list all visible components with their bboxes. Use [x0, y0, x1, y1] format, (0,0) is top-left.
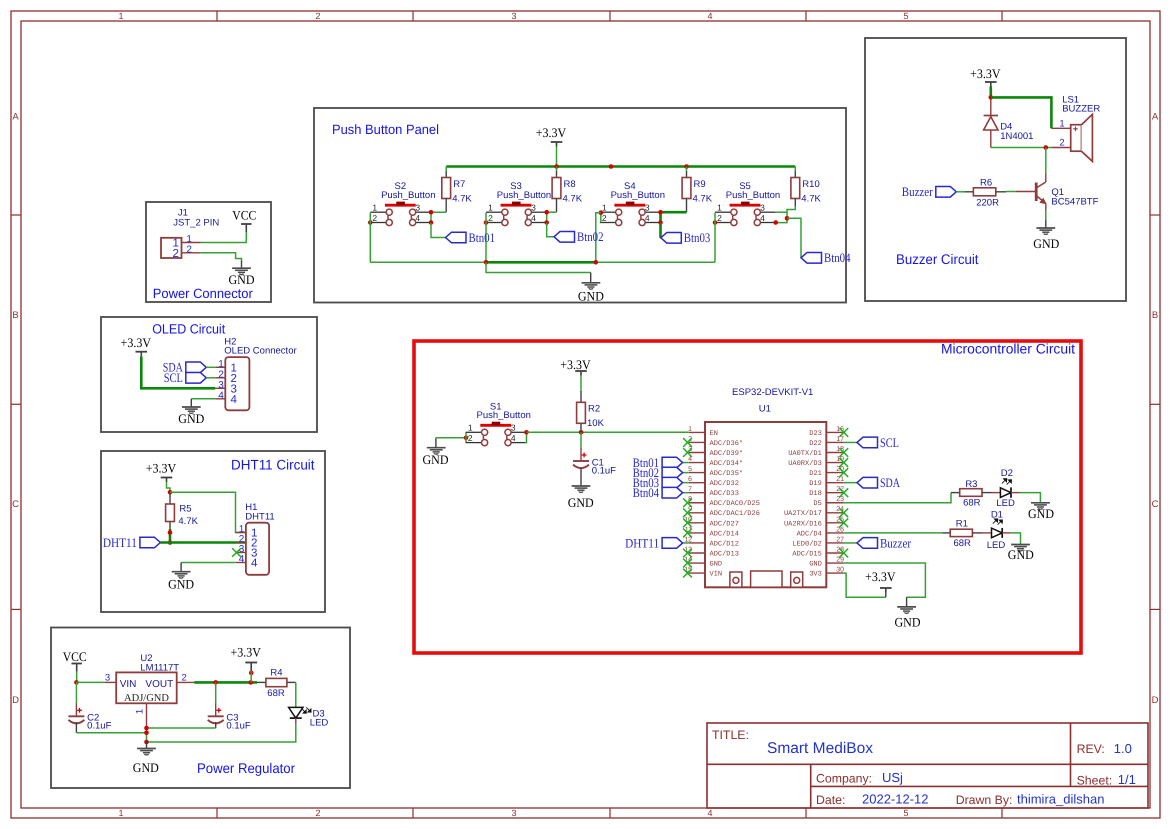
svg-text:Push_Button: Push_Button [476, 410, 530, 421]
svg-text:4.7K: 4.7K [563, 193, 583, 204]
svg-text:D5: D5 [813, 500, 821, 508]
H1 pin 3 [236, 552, 246, 554]
net port DHT11 mcu [625, 535, 683, 550]
no-connect U1 pin 24 [839, 508, 848, 517]
wire S3 pin2 drop [485, 213, 487, 263]
svg-text:DHT11: DHT11 [103, 535, 137, 550]
svg-text:2022-12-12: 2022-12-12 [862, 792, 929, 807]
no-connect U1 pin 3 [683, 448, 692, 457]
wire stub [686, 199, 688, 213]
junction VCC [74, 680, 79, 685]
wire SDA [206, 366, 215, 368]
junction S5 net [785, 216, 790, 221]
ground [582, 283, 601, 289]
svg-text:LED: LED [996, 498, 1015, 509]
svg-text:1: 1 [468, 423, 473, 433]
net port Btn02 [633, 465, 683, 480]
svg-text:30: 30 [836, 567, 844, 574]
junction S4 pin3 [658, 210, 663, 215]
svg-text:ADC/D13: ADC/D13 [710, 549, 739, 558]
svg-text:3: 3 [105, 673, 110, 684]
wire VCC to U2 VIN [76, 681, 104, 683]
junction S2 pin4 [429, 220, 434, 225]
U1 pin 28 [826, 552, 844, 554]
svg-text:ADC/D12: ADC/D12 [710, 539, 739, 548]
svg-text:BUZZER: BUZZER [1062, 104, 1100, 115]
power +3.3V panel [536, 125, 567, 147]
LED D3 [289, 707, 329, 728]
U1 pin 5 [689, 472, 705, 474]
wire VCC to J1 pin1 [201, 232, 247, 243]
svg-text:3: 3 [511, 423, 516, 433]
wire stub [580, 391, 582, 402]
svg-text:VCC: VCC [63, 649, 87, 664]
svg-text:4: 4 [231, 394, 238, 406]
junction S1 pin3 [524, 430, 529, 435]
svg-text:ADC/D32: ADC/D32 [710, 479, 739, 488]
wire +3.3V stem [250, 671, 252, 682]
junction DHT11 net [168, 540, 173, 545]
no-connect U1 pin 22 [839, 488, 848, 497]
svg-text:TITLE:: TITLE: [712, 728, 749, 742]
U1 pin 15 [689, 572, 705, 574]
svg-text:A: A [1152, 112, 1159, 123]
svg-text:2: 2 [468, 433, 473, 443]
svg-text:UA2RX/D16: UA2RX/D16 [784, 519, 822, 528]
ground D2 [1031, 503, 1050, 509]
svg-text:4: 4 [511, 433, 516, 443]
wire stub [580, 423, 582, 432]
wire R10 to S5 [776, 206, 796, 223]
svg-text:1: 1 [688, 426, 692, 433]
svg-text:+3.3V: +3.3V [865, 569, 896, 584]
block box DHT11 Circuit [101, 451, 325, 612]
block box Power Regulator [51, 628, 350, 789]
push button S3 [486, 181, 551, 225]
connector H2 [225, 357, 249, 410]
svg-text:ADC/D39*: ADC/D39* [710, 449, 744, 458]
title block [707, 723, 1148, 808]
svg-text:Buzzer: Buzzer [880, 535, 912, 550]
junction collector [1044, 145, 1049, 150]
capacitor C1 stub [580, 448, 582, 461]
wire Buzzer net [844, 542, 857, 544]
svg-text:2: 2 [488, 213, 493, 223]
net port Buzzer mcu [857, 535, 912, 550]
U1 pin 18 [826, 452, 844, 454]
wire H2 pin4 to ground [191, 398, 215, 400]
no-connect U1 pin 13 [683, 549, 692, 558]
wire stub [215, 722, 217, 728]
wire SDA [844, 482, 857, 484]
capacitor C2 [68, 708, 111, 732]
wire bus to R7 [445, 167, 447, 172]
svg-text:Btn04: Btn04 [824, 250, 851, 265]
wire +3.3V [989, 87, 992, 98]
no-connect H1 pin3 [232, 548, 241, 557]
no-connect U1 pin 2 [683, 438, 692, 447]
transistor Q1 labels [1051, 187, 1098, 208]
LS1 pin 2 [1052, 147, 1071, 149]
wire U1 GND [844, 563, 926, 597]
no-connect U1 pin 15 [683, 569, 692, 578]
junction GND bus [484, 260, 489, 265]
push button S1 [466, 401, 531, 445]
svg-text:thimira_dilshan: thimira_dilshan [1017, 792, 1104, 807]
ground D1 [1011, 545, 1030, 551]
svg-text:SCL: SCL [880, 435, 899, 450]
junction R5 [168, 530, 173, 535]
J1 pin numbers [172, 234, 192, 260]
capacitor C3 [208, 708, 251, 732]
resistor R5 [166, 504, 199, 528]
svg-text:VIN: VIN [120, 679, 137, 690]
svg-text:Btn03: Btn03 [684, 230, 711, 245]
wire stub [241, 261, 243, 268]
junction S4 pin4 [658, 220, 663, 225]
wire stub [169, 522, 171, 530]
svg-text:4: 4 [645, 213, 650, 223]
svg-text:4: 4 [531, 213, 536, 223]
svg-text:UA2TX/D17: UA2TX/D17 [784, 509, 822, 518]
svg-text:3: 3 [415, 202, 420, 212]
IC U1 labels [732, 387, 813, 415]
junction bus/+3.3V [554, 164, 559, 169]
LED D2 [996, 468, 1020, 509]
svg-text:4: 4 [760, 213, 765, 223]
connector J1 [161, 238, 182, 258]
U1 pin 21 [826, 482, 844, 484]
capacitor C2 stub [75, 704, 77, 717]
U1 pin 1 [689, 431, 705, 433]
wire C3 to ground [147, 727, 216, 729]
svg-text:ADC/D36*: ADC/D36* [710, 439, 744, 448]
svg-text:2: 2 [186, 244, 192, 255]
resistor R9 [682, 178, 713, 205]
wire stub [180, 563, 182, 572]
regulator U2 LM1117T [116, 672, 177, 703]
junction S3 pin4 [544, 220, 549, 225]
wire collector [1045, 148, 1047, 174]
connector H2 labels [224, 337, 296, 357]
U1 pin 26 [826, 532, 844, 534]
H2 pin 4 [215, 398, 225, 400]
wire 3V3 [844, 573, 886, 597]
wire stub [996, 191, 1006, 193]
wire GND jog [486, 262, 591, 272]
svg-text:2: 2 [717, 213, 722, 223]
wire S1 pin3-pin4 [525, 432, 527, 442]
wire stub [169, 494, 171, 504]
LED D1 [987, 510, 1011, 552]
svg-text:ESP32-DEVKIT-V1: ESP32-DEVKIT-V1 [732, 387, 813, 398]
svg-text:21: 21 [836, 476, 844, 483]
wire R9 to S4 pin3 [661, 211, 687, 214]
H1 pin number 4 [239, 554, 258, 570]
capacitor C2 wire [75, 682, 77, 703]
junction S3 pin2 [484, 220, 489, 225]
net port SCL [164, 370, 207, 385]
regulator U2 labels [140, 653, 179, 674]
svg-text:3: 3 [760, 202, 765, 212]
no-connect U1 pin 28 [839, 549, 848, 558]
U1 usb notch [751, 571, 782, 587]
svg-text:Buzzer Circuit: Buzzer Circuit [896, 251, 979, 267]
svg-text:LED0/D2: LED0/D2 [792, 539, 821, 548]
wire S4 pin1-pin2 [600, 213, 602, 223]
U1 pin 14 [689, 562, 705, 564]
svg-text:Push_Button: Push_Button [381, 190, 435, 201]
wire stub [257, 681, 266, 683]
wire stub [590, 273, 592, 283]
svg-text:D: D [1152, 695, 1159, 706]
svg-text:3V3: 3V3 [809, 571, 822, 579]
wire stub [965, 191, 973, 193]
svg-text:GND: GND [1028, 506, 1054, 521]
svg-text:ADJ/GND: ADJ/GND [124, 693, 169, 704]
svg-text:D: D [12, 695, 19, 706]
resistor R3 [960, 479, 982, 509]
U1 pin 4 [689, 462, 705, 464]
svg-text:4: 4 [251, 558, 258, 570]
svg-text:UA0TX/D1: UA0TX/D1 [788, 449, 822, 458]
junction ground 3 [144, 740, 149, 745]
svg-text:DHT11: DHT11 [625, 535, 659, 550]
junction S2 pin3 [429, 210, 434, 215]
block box OLED Circuit [101, 317, 317, 432]
junction bus/R9 [684, 164, 689, 169]
H1 pin number 2 [239, 534, 258, 550]
svg-text:R3: R3 [965, 479, 977, 490]
block box Buzzer Circuit [865, 38, 1126, 301]
wire stub [580, 468, 582, 486]
svg-text:SDA: SDA [880, 475, 900, 490]
U1 pin 30 [826, 572, 844, 574]
wire stub [885, 588, 887, 597]
svg-text:R10: R10 [802, 179, 819, 190]
svg-text:1: 1 [218, 359, 224, 370]
svg-text:0.1uF: 0.1uF [592, 465, 616, 476]
U1 mount hole left [730, 572, 742, 587]
ground [232, 268, 251, 274]
junction R2/C1 [579, 430, 584, 435]
svg-text:220R: 220R [976, 197, 999, 208]
wire +3.3V to LS1 pin1 [991, 97, 1052, 128]
wire ADC/D4 to R1 [844, 532, 943, 534]
connector H1 [246, 523, 269, 575]
U1 pin 8 [689, 502, 705, 504]
H1 pin number 1 [239, 524, 258, 540]
power +3.3V R2 [560, 357, 591, 376]
ground S1 [427, 448, 446, 454]
U1 pin 23 [826, 502, 844, 504]
junction +3.3V/D4 [989, 95, 994, 100]
wire R6 to base [1006, 191, 1015, 193]
svg-text:+3.3V: +3.3V [146, 461, 177, 476]
title block texts [712, 728, 1136, 807]
svg-text:OLED Connector: OLED Connector [224, 346, 296, 357]
power +3.3V OLED [121, 335, 152, 356]
power VCC [232, 208, 256, 233]
svg-text:3: 3 [511, 11, 516, 21]
svg-text:U1: U1 [759, 404, 771, 415]
svg-text:R6: R6 [980, 177, 992, 188]
junction S5 pin4 [773, 220, 778, 225]
power +3.3V 3V3 [865, 569, 896, 592]
wire Btn04 [787, 218, 801, 257]
wire Btn03 [659, 223, 662, 238]
wire Btn02 [683, 472, 689, 474]
ground [1036, 228, 1055, 234]
U1 pin 10 [689, 522, 705, 524]
svg-text:4: 4 [415, 213, 420, 223]
svg-text:2: 2 [602, 213, 607, 223]
svg-text:D1: D1 [991, 510, 1003, 521]
wire S5 pin3 [776, 211, 787, 213]
wire DHT11 to H1 pin2 [160, 541, 246, 544]
capacitor C2 bottom stub [75, 722, 77, 733]
net port Buzzer [902, 184, 957, 199]
svg-text:29: 29 [836, 556, 844, 563]
svg-text:B: B [1152, 310, 1158, 321]
svg-text:GND: GND [423, 452, 449, 467]
svg-text:2: 2 [315, 11, 320, 21]
svg-text:4.7K: 4.7K [693, 193, 713, 204]
U1 pin 27 [826, 542, 844, 544]
wire VOUT bus [194, 681, 257, 684]
svg-text:DHT11: DHT11 [245, 512, 274, 523]
wire D5 to R3 [844, 493, 951, 503]
no-connect U1 pin 8 [683, 498, 692, 507]
U1 pin 9 [689, 512, 705, 514]
U1 pin 3 [689, 452, 705, 454]
D2 anode [991, 492, 1000, 494]
svg-text:ADC/DAC1/D26: ADC/DAC1/D26 [710, 509, 760, 518]
wire stub [445, 171, 447, 177]
svg-text:Btn01: Btn01 [469, 230, 496, 245]
wire stub [1045, 220, 1047, 228]
wire stub [951, 492, 960, 494]
J1 pin 1 [182, 242, 201, 244]
svg-text:+3.3V: +3.3V [970, 66, 1001, 81]
wire stub [906, 597, 908, 607]
H2 pin number 2 [218, 369, 237, 385]
ground C1 [572, 486, 591, 492]
svg-text:1: 1 [118, 11, 123, 21]
wire ground node [146, 727, 148, 743]
LS1 pin 1 [1051, 127, 1070, 129]
svg-text:D18: D18 [809, 490, 822, 498]
H1 pin number 3 [239, 544, 258, 560]
H2 pin number 1 [218, 359, 237, 375]
svg-text:C: C [12, 499, 19, 510]
resistor R4 [266, 668, 287, 700]
resistor R7 [442, 178, 473, 205]
svg-text:+3.3V: +3.3V [121, 335, 152, 350]
svg-text:2: 2 [1059, 138, 1064, 149]
ground regulator [137, 749, 156, 755]
net port SDA mcu [857, 475, 900, 490]
connector J1 labels [173, 207, 219, 228]
ground [172, 572, 191, 578]
wire +3.3V to H2 pin3 [141, 356, 215, 388]
svg-text:1: 1 [372, 202, 377, 212]
svg-text:2: 2 [181, 673, 186, 684]
ground U1 [897, 607, 916, 613]
svg-text:2: 2 [372, 213, 377, 223]
svg-text:Push_Button: Push_Button [611, 190, 665, 201]
no-connect U1 pin 19 [839, 458, 848, 467]
svg-text:R9: R9 [694, 179, 706, 190]
wire bus to R8 [556, 167, 558, 172]
H2 pin 2 [215, 377, 225, 379]
svg-text:DHT11 Circuit: DHT11 Circuit [231, 456, 315, 472]
svg-text:+3.3V: +3.3V [230, 645, 261, 660]
transistor Q1 [1015, 174, 1045, 211]
svg-text:Power Regulator: Power Regulator [197, 760, 295, 776]
svg-text:Push Button Panel: Push Button Panel [332, 122, 439, 137]
svg-text:ADC/D14: ADC/D14 [710, 529, 739, 538]
junction S3 pin3 [544, 210, 549, 215]
wire Btn02 [547, 223, 554, 237]
svg-text:27: 27 [836, 536, 844, 543]
junction GND bus S4 [594, 260, 599, 265]
svg-text:GND: GND [168, 577, 194, 592]
wire stub [794, 171, 796, 177]
svg-text:EN: EN [710, 430, 718, 438]
wire bottom GND bus dark part [486, 261, 596, 264]
wire R7 to S2 pin3 [431, 211, 446, 213]
svg-text:1N4001: 1N4001 [1000, 131, 1033, 142]
wire +3.3V [167, 482, 171, 492]
U1 pin 2 [689, 441, 705, 443]
junction R5 top [168, 490, 173, 495]
wire R5 bottom [169, 529, 172, 543]
no-connect U1 pin 10 [683, 518, 692, 527]
U1 pin 6 [689, 482, 705, 484]
junction S4 pin1 [599, 210, 604, 215]
H1 pin 1 [236, 532, 246, 534]
wire emitter to ground [1045, 211, 1047, 221]
svg-text:+3.3V: +3.3V [560, 357, 591, 372]
wire stub [445, 199, 447, 213]
wire stub [556, 171, 558, 177]
svg-text:0.1uF: 0.1uF [226, 721, 250, 732]
no-connect U1 pin 16 [839, 428, 848, 437]
wire stub [972, 532, 982, 534]
svg-text:Btn04: Btn04 [633, 485, 660, 500]
svg-text:Btn02: Btn02 [577, 229, 604, 244]
svg-text:GND: GND [895, 615, 921, 630]
svg-text:SCL: SCL [164, 370, 183, 385]
svg-text:D23: D23 [809, 430, 822, 438]
svg-text:A: A [12, 112, 19, 123]
svg-text:R7: R7 [453, 179, 465, 190]
svg-text:0.1uF: 0.1uF [87, 721, 111, 732]
push button S5 [715, 181, 780, 225]
svg-text:5: 5 [903, 808, 908, 818]
wire Buzzer to R6 [956, 191, 965, 193]
resistor R10 [791, 178, 822, 205]
wire stub [686, 171, 688, 177]
wire S5 pin2 drop [714, 213, 716, 263]
svg-text:1: 1 [118, 808, 123, 818]
svg-text:1: 1 [135, 709, 146, 714]
wire S4 drop [596, 213, 601, 263]
junction +3.3V reg [248, 680, 253, 685]
net port Btn01 [633, 455, 683, 470]
svg-text:GND: GND [710, 560, 723, 568]
